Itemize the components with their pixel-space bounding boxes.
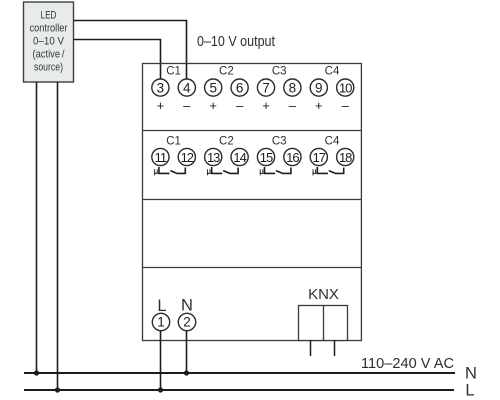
divider 2 [143, 199, 362, 201]
wire terminal 2 to N line [186, 331, 188, 373]
svg-text:13: 13 [207, 150, 220, 165]
svg-text:+: + [157, 98, 165, 113]
terminal 2 [178, 313, 195, 330]
device outline [143, 64, 362, 341]
svg-text:10: 10 [339, 81, 352, 96]
svg-text:source): source) [34, 62, 63, 74]
terminal 5 [205, 79, 222, 96]
svg-text:controller: controller [30, 23, 68, 35]
terminal 12 [178, 148, 195, 165]
svg-text:LED: LED [41, 10, 57, 22]
svg-text:–: – [342, 98, 350, 113]
svg-text:16: 16 [286, 150, 299, 165]
svg-text:+: + [209, 98, 217, 113]
terminal 3 [152, 79, 169, 96]
svg-text:2: 2 [183, 315, 191, 330]
svg-text:18: 18 [339, 150, 352, 165]
svg-text:C1: C1 [166, 136, 181, 148]
svg-text:5: 5 [209, 81, 217, 96]
wire controller to L line [57, 82, 59, 390]
terminal 9 [310, 79, 327, 96]
N supply line [24, 372, 455, 374]
divider 1 [143, 130, 362, 132]
switch contact C2 (terminals 13-14) [207, 167, 238, 175]
wire controller to N line [36, 82, 38, 373]
svg-text:12: 12 [181, 150, 194, 165]
terminal 1 [152, 313, 169, 330]
terminal 17 [310, 148, 327, 165]
terminal 7 [257, 79, 274, 96]
svg-text:C2: C2 [219, 66, 234, 78]
terminal 10 [337, 79, 354, 96]
junction controller-N [34, 370, 39, 375]
svg-text:L: L [465, 382, 474, 400]
svg-text:14: 14 [233, 150, 246, 165]
svg-text:1: 1 [157, 315, 165, 330]
svg-text:3: 3 [157, 81, 165, 96]
switch contact C1 (terminals 11-12) [155, 167, 186, 175]
wire terminal 1 to L line [160, 331, 162, 390]
svg-text:4: 4 [183, 81, 191, 96]
svg-text:–: – [236, 98, 244, 113]
svg-text:+: + [262, 98, 270, 113]
svg-text:–: – [289, 98, 297, 113]
LED controller box [24, 2, 74, 82]
switch contact C3 (terminals 15-16) [260, 167, 291, 175]
L supply line [24, 389, 454, 391]
svg-text:–: – [183, 98, 191, 113]
svg-text:0–10 V output: 0–10 V output [197, 34, 275, 50]
svg-text:C2: C2 [219, 136, 234, 148]
junction terminal2-N [184, 370, 189, 375]
KNX bus pin - [334, 341, 336, 357]
svg-text:7: 7 [262, 81, 270, 96]
junction controller-L [55, 387, 60, 392]
terminal 8 [284, 79, 301, 96]
svg-text:+: + [315, 98, 323, 113]
svg-text:KNX: KNX [308, 286, 339, 303]
svg-text:C4: C4 [325, 66, 340, 78]
terminal 15 [257, 148, 274, 165]
KNX bus pin + [310, 341, 312, 357]
svg-text:(active /: (active / [33, 49, 66, 61]
terminal 11 [152, 148, 169, 165]
terminal 16 [284, 148, 301, 165]
svg-text:N: N [465, 365, 477, 383]
svg-text:11: 11 [155, 150, 167, 165]
terminal 13 [205, 148, 222, 165]
svg-text:6: 6 [236, 81, 244, 96]
svg-text:C4: C4 [325, 136, 340, 148]
svg-text:C3: C3 [272, 66, 287, 78]
svg-text:15: 15 [260, 150, 273, 165]
terminal 4 [178, 79, 195, 96]
terminal 18 [337, 148, 354, 165]
switch contact C4 (terminals 17-18) [313, 167, 344, 175]
svg-text:0–10 V: 0–10 V [33, 36, 65, 48]
terminal 6 [231, 79, 248, 96]
divider 3 [143, 267, 362, 269]
svg-text:9: 9 [315, 81, 323, 96]
terminal 14 [231, 148, 248, 165]
svg-text:110–240 V AC: 110–240 V AC [361, 356, 454, 372]
svg-text:L: L [157, 297, 166, 315]
svg-text:N: N [181, 297, 193, 315]
junction terminal1-L [158, 387, 163, 392]
wire controller minus to terminal 4 [74, 21, 187, 80]
svg-text:17: 17 [313, 150, 326, 165]
svg-text:C1: C1 [166, 66, 181, 78]
svg-text:C3: C3 [272, 136, 287, 148]
svg-text:8: 8 [289, 81, 297, 96]
wire controller plus to terminal 3 [74, 40, 161, 80]
KNX bus connector block [299, 306, 348, 341]
